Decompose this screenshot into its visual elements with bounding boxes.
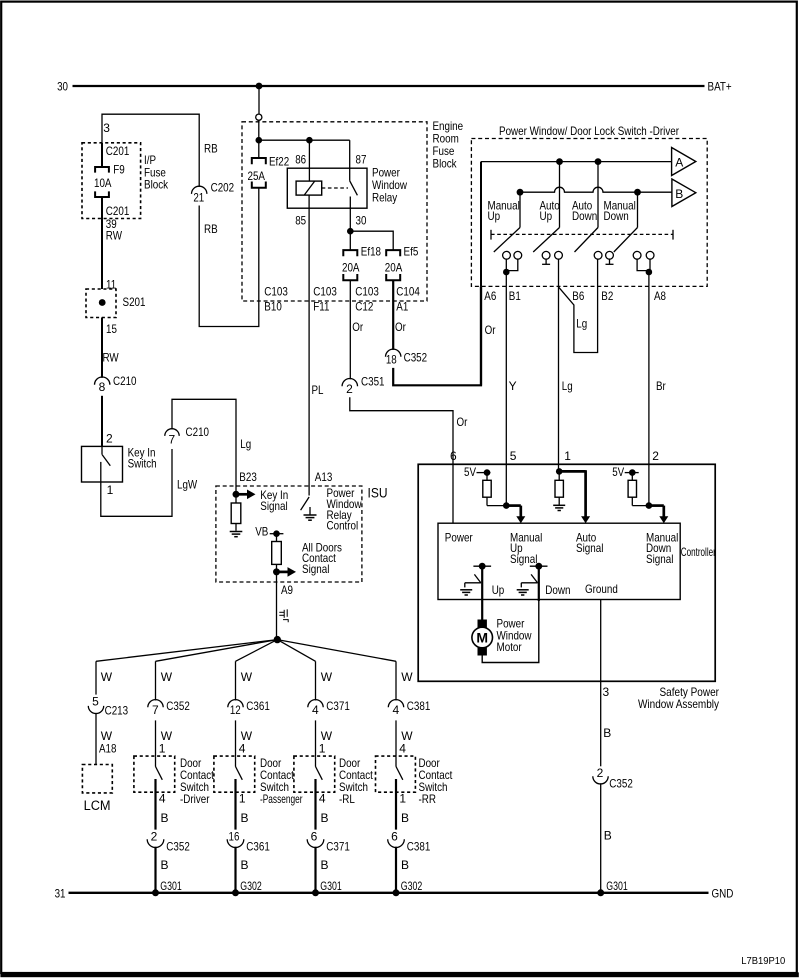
door contact switch -RR	[376, 756, 416, 792]
junction node coil feed	[306, 137, 313, 144]
svg-text:G301: G301	[606, 879, 628, 893]
svg-text:B10: B10	[264, 300, 282, 314]
fan wire branch 3	[236, 640, 278, 662]
connector C351 pin 2	[342, 374, 385, 396]
svg-text:C361: C361	[246, 699, 270, 713]
wire B6 out	[558, 259, 560, 286]
svg-text:C352: C352	[404, 350, 428, 364]
svg-text:-RR: -RR	[419, 792, 437, 806]
svg-text:B: B	[603, 726, 611, 740]
wire coil out 85 PL to ISU	[308, 195, 310, 495]
svg-text:G302: G302	[240, 879, 262, 893]
label auto signal	[576, 530, 603, 555]
svg-text:C201: C201	[106, 144, 130, 158]
contact pair auto down	[594, 251, 613, 259]
ground G302 branch5	[393, 879, 423, 896]
door contact switch -Passenger	[214, 756, 255, 792]
svg-text:Or: Or	[395, 320, 406, 334]
fuse Ef5 20A	[385, 245, 419, 281]
connector C381 pin 6	[388, 830, 431, 854]
engine room fuse block box	[242, 122, 427, 301]
svg-text:Power Window/ Door Lock Switch: Power Window/ Door Lock Switch -Driver	[499, 124, 679, 138]
connector C210 pin 7	[165, 425, 209, 446]
svg-text:W: W	[101, 670, 113, 684]
svg-text:S201: S201	[123, 295, 146, 309]
key in switch K	[82, 445, 157, 482]
svg-text:G302: G302	[401, 879, 423, 893]
stub auto up NC	[542, 259, 550, 264]
junction pin2	[646, 502, 653, 509]
fuse Ef22 25A	[248, 154, 290, 187]
wire branch3 B lower	[236, 847, 249, 893]
svg-text:4: 4	[159, 792, 166, 806]
svg-text:C381: C381	[407, 839, 431, 853]
connector C352 pin 18	[386, 349, 428, 367]
svg-text:85: 85	[295, 213, 306, 227]
wire A8 out	[648, 272, 650, 286]
svg-text:C352: C352	[609, 777, 633, 791]
svg-text:PL: PL	[312, 383, 324, 397]
svg-text:Or: Or	[485, 323, 496, 337]
fan wire branch 4	[277, 640, 315, 662]
label all doors contact signal	[302, 540, 342, 576]
svg-text:VB: VB	[255, 525, 268, 539]
svg-text:B23: B23	[239, 470, 257, 484]
svg-text:ISU: ISU	[368, 486, 388, 501]
label door contact switch -RL	[339, 756, 373, 806]
controller box	[438, 523, 680, 599]
label Manual Down	[604, 199, 636, 223]
wire connector to junction	[258, 120, 260, 140]
svg-text:4: 4	[312, 703, 319, 717]
ISU box	[216, 486, 362, 582]
svg-text:Lg: Lg	[576, 317, 587, 331]
label Auto Up	[540, 199, 560, 223]
svg-text:Switch: Switch	[128, 457, 157, 471]
label key in signal	[260, 488, 288, 513]
svg-text:8: 8	[99, 380, 106, 394]
svg-text:4: 4	[319, 792, 326, 806]
I/P fuse block name	[144, 153, 169, 191]
svg-text:Up: Up	[492, 583, 505, 597]
svg-text:B6: B6	[572, 289, 584, 303]
wire relay feed horizontal	[259, 139, 350, 141]
up switch	[460, 563, 491, 595]
svg-text:Down: Down	[572, 209, 597, 223]
svg-text:Br: Br	[656, 379, 666, 393]
contact pair auto up	[542, 251, 562, 259]
ground G301 branch4	[312, 879, 342, 896]
svg-text:B: B	[401, 811, 409, 825]
power window relay name	[372, 166, 407, 205]
switch blade manual up	[494, 192, 520, 252]
wire pair1 tie to B1	[506, 259, 518, 272]
5V pullup manual up	[464, 465, 506, 506]
wire bus to fuse block connector	[258, 86, 260, 114]
connector C361 pin 16	[227, 830, 270, 854]
svg-text:C104: C104	[396, 285, 420, 299]
svg-text:Block: Block	[433, 157, 458, 171]
svg-text:C371: C371	[326, 839, 350, 853]
junction pin5	[503, 502, 510, 509]
svg-text:Signal: Signal	[646, 552, 673, 566]
junction A line 1	[556, 158, 563, 165]
wire pair4 tie to A8	[637, 259, 650, 272]
engine room fuse block name	[433, 119, 464, 171]
junction node at relay feed	[255, 137, 262, 144]
connector C104 A1 labels	[396, 285, 420, 314]
door contact switch -RL	[294, 756, 335, 792]
svg-text:M: M	[476, 630, 488, 646]
svg-text:LgW: LgW	[177, 478, 198, 492]
svg-text:A18: A18	[99, 742, 117, 756]
svg-text:2: 2	[597, 766, 604, 780]
wire A9 out	[276, 572, 278, 640]
wire C201 to fuse F9	[101, 143, 103, 167]
wire branch5 B lower	[396, 847, 409, 893]
wire B1 to safety pin5	[505, 286, 507, 504]
svg-text:86: 86	[295, 152, 306, 166]
connector C213 pin 5	[88, 694, 128, 717]
junction node B23	[233, 491, 240, 498]
wire A8 to safety pin2	[648, 286, 650, 504]
wire branch5 B upper	[396, 779, 409, 830]
I/P fuse block box	[82, 143, 141, 219]
wire B6 to safety pin1	[558, 286, 560, 473]
svg-text:15: 15	[106, 322, 117, 336]
wire Ef18 out	[349, 280, 351, 379]
svg-text:B: B	[161, 811, 169, 825]
svg-text:C371: C371	[326, 699, 350, 713]
connector C371 pin 6	[307, 830, 350, 854]
svg-text:G301: G301	[160, 879, 182, 893]
svg-text:20A: 20A	[342, 260, 360, 274]
label door contact switch -Passenger	[260, 756, 303, 806]
svg-text:G301: G301	[320, 879, 342, 893]
arrow auto signal	[559, 470, 590, 523]
svg-text:25A: 25A	[248, 169, 266, 183]
svg-text:C352: C352	[166, 699, 190, 713]
svg-text:11: 11	[106, 277, 116, 291]
wire branch2 W upper	[156, 661, 173, 700]
splice S201	[86, 289, 146, 318]
wire branch1 W upper	[96, 661, 113, 694]
svg-text:C210: C210	[113, 374, 137, 388]
svg-text:C103: C103	[355, 285, 379, 299]
contact pair manual up	[503, 251, 522, 259]
svg-text:C103: C103	[264, 285, 288, 299]
svg-text:F11: F11	[313, 300, 329, 314]
label manual up signal	[510, 530, 542, 566]
svg-text:12: 12	[230, 703, 241, 717]
svg-text:1: 1	[107, 483, 114, 497]
connector circle into engine room fuse block	[256, 114, 262, 120]
stub auto down NC	[606, 259, 614, 264]
arrow all doors contact signal	[277, 571, 289, 574]
svg-text:Signal: Signal	[260, 499, 287, 513]
resistor all doors	[272, 534, 282, 572]
wire branch4 W upper	[316, 661, 333, 700]
wire branch2 B lower	[156, 847, 169, 893]
door contact switch -Driver	[134, 756, 175, 792]
wire C352-2 to G301	[600, 783, 602, 893]
wire branch3 W upper	[236, 661, 253, 700]
connector C103 B10 labels	[264, 285, 288, 314]
svg-text:10A: 10A	[94, 176, 112, 190]
svg-text:6: 6	[450, 449, 457, 463]
label power window relay control	[327, 486, 362, 532]
5V pullup auto	[553, 468, 565, 510]
label manual down signal	[646, 530, 678, 566]
wire branch5 W upper	[396, 661, 413, 700]
svg-text:2: 2	[151, 830, 158, 844]
svg-text:Window Assembly: Window Assembly	[638, 697, 719, 711]
wire S201 down pin 15	[101, 318, 103, 378]
junction node B1	[503, 269, 510, 276]
fan wire branch 1	[96, 640, 277, 662]
wire to C352-2	[600, 681, 602, 766]
svg-text:C381: C381	[407, 699, 431, 713]
wire coil feed 86	[308, 140, 310, 181]
5V pullup manual down	[612, 465, 649, 506]
fan junction node	[274, 636, 281, 643]
connector C352 pin 7	[148, 699, 190, 717]
wire C351 to safety pin 6	[350, 397, 453, 464]
svg-text:20A: 20A	[385, 260, 403, 274]
wire branch3 B upper	[236, 779, 249, 830]
wire line A	[481, 161, 672, 163]
fuse Ef18 20A	[342, 245, 381, 281]
svg-text:C12: C12	[355, 300, 373, 314]
switch blade auto up	[533, 162, 559, 252]
svg-text:A: A	[675, 155, 683, 169]
label safety power window assembly	[638, 685, 719, 711]
relay coil-contact link	[322, 187, 348, 189]
wire branch4 B upper	[316, 779, 329, 830]
wire branch5 W lower	[396, 720, 413, 756]
wire A6 riser	[480, 162, 482, 287]
junction A line 2	[595, 158, 602, 165]
wire branch1 W lower A18	[96, 713, 117, 765]
svg-text:B: B	[321, 858, 329, 872]
wire branch2 B upper	[156, 779, 169, 830]
svg-text:A9: A9	[281, 583, 293, 597]
wire down to motor loop	[538, 566, 540, 601]
svg-text:B: B	[241, 858, 249, 872]
svg-text:W: W	[401, 670, 413, 684]
svg-text:3: 3	[103, 121, 110, 135]
junction on bus 30	[256, 83, 263, 90]
svg-text:Motor: Motor	[497, 640, 522, 654]
wire branch4 W lower	[316, 720, 333, 756]
svg-text:W: W	[241, 670, 253, 684]
svg-text:A1: A1	[396, 300, 408, 314]
label power window motor	[497, 617, 532, 655]
svg-text:B: B	[161, 858, 169, 872]
svg-text:6: 6	[391, 830, 398, 844]
svg-text:A13: A13	[315, 470, 333, 484]
svg-text:7: 7	[152, 703, 159, 717]
connector C103 F11 labels	[313, 285, 337, 314]
relay coil	[296, 181, 322, 195]
svg-text:B2: B2	[601, 289, 613, 303]
wire to Ef18	[349, 231, 351, 250]
connector C381 pin 4	[388, 699, 430, 717]
svg-text:C352: C352	[166, 839, 190, 853]
svg-text:RB: RB	[204, 142, 218, 156]
svg-text:B: B	[321, 811, 329, 825]
wire C210 to key in switch	[101, 396, 103, 447]
op-amp-like triangle A	[672, 148, 696, 176]
svg-text:W: W	[161, 670, 173, 684]
svg-text:3: 3	[603, 685, 610, 699]
svg-text:18: 18	[386, 353, 397, 367]
svg-text:Signal: Signal	[576, 541, 603, 555]
svg-text:Control: Control	[327, 519, 359, 533]
svg-text:31: 31	[55, 886, 66, 900]
junction B line 2	[634, 189, 641, 196]
svg-text:F9: F9	[113, 163, 125, 177]
svg-text:RW: RW	[103, 350, 120, 364]
svg-text:30: 30	[57, 80, 68, 94]
connector C352 pin 2	[147, 830, 190, 854]
svg-text:B: B	[675, 187, 683, 201]
switch blade manual down	[614, 192, 638, 252]
svg-text:5: 5	[510, 449, 517, 463]
svg-text:1: 1	[399, 792, 406, 806]
connector C361 pin 12	[228, 699, 270, 717]
wire ground pin	[600, 600, 602, 682]
wire Ef22 to C103 B10 and corner	[199, 188, 259, 327]
label Manual Up	[488, 199, 520, 223]
svg-text:B: B	[401, 858, 409, 872]
svg-text:C361: C361	[246, 839, 270, 853]
VB node	[270, 530, 284, 537]
connector C210 pin 8	[95, 374, 137, 394]
svg-text:Power: Power	[445, 530, 473, 544]
wire branch3 W lower	[236, 720, 253, 756]
resistor key in	[230, 494, 243, 536]
svg-text:W: W	[321, 670, 333, 684]
junction node 30	[347, 228, 354, 235]
svg-text:C213: C213	[105, 704, 129, 718]
wire C202 up to top corner	[102, 114, 199, 187]
relay switch contact	[350, 140, 358, 231]
wire fuse F9 down pin 39	[101, 197, 103, 289]
fan wire branch 2	[156, 640, 278, 662]
svg-text:BAT+: BAT+	[708, 80, 732, 94]
ground G301 safety	[597, 879, 628, 896]
svg-text:5V: 5V	[612, 465, 624, 479]
down switch	[517, 563, 548, 595]
svg-text:21: 21	[193, 191, 204, 205]
svg-text:RB: RB	[204, 222, 218, 236]
wire to Ef5	[350, 231, 393, 250]
svg-text:L7B19P10: L7B19P10	[741, 956, 785, 967]
svg-text:C202: C202	[211, 181, 235, 195]
wire pin6 power	[452, 464, 454, 523]
wire up to motor	[481, 566, 483, 620]
svg-text:Controller: Controller	[681, 545, 716, 559]
arrow key in signal	[236, 493, 248, 496]
svg-text:16: 16	[229, 830, 240, 844]
connector C103 C12 labels	[355, 285, 379, 314]
svg-text:4: 4	[392, 703, 399, 717]
svg-text:Or: Or	[457, 415, 468, 429]
svg-text:LCM: LCM	[84, 798, 111, 813]
ISU relay control driver	[301, 497, 317, 520]
svg-text:4: 4	[399, 742, 406, 756]
svg-text:-RL: -RL	[339, 792, 355, 806]
svg-text:2: 2	[652, 449, 659, 463]
wire line B with hops	[518, 187, 672, 192]
junction node A9	[273, 568, 280, 575]
switch driver box	[471, 139, 707, 287]
svg-text:1: 1	[159, 742, 166, 756]
wire B1 out	[505, 272, 507, 286]
svg-text:Down: Down	[545, 583, 570, 597]
svg-text:Lg: Lg	[562, 379, 573, 393]
svg-text:1: 1	[239, 792, 246, 806]
power window motor M1	[472, 620, 493, 656]
svg-text:Signal: Signal	[510, 552, 537, 566]
junction B line 1	[517, 189, 524, 196]
label door contact switch -RR	[419, 756, 453, 806]
bus 30 BAT+	[73, 85, 705, 87]
junction node A8	[646, 269, 653, 276]
svg-text:Lg: Lg	[240, 437, 251, 451]
op-amp-like triangle B	[672, 179, 696, 207]
arrow manual down signal	[649, 506, 668, 524]
connector C352 pin 2 ground chain	[593, 766, 633, 790]
splice mark	[279, 609, 288, 622]
wire C210-7 to ISU B23	[172, 399, 236, 494]
svg-text:Ground: Ground	[585, 582, 618, 596]
svg-text:A8: A8	[654, 289, 666, 303]
svg-text:2: 2	[106, 431, 113, 445]
svg-text:7: 7	[168, 432, 175, 446]
ground G302 branch3	[232, 879, 262, 896]
svg-text:Y: Y	[509, 379, 517, 393]
svg-text:1: 1	[319, 742, 326, 756]
svg-text:5: 5	[92, 694, 99, 708]
bus 31 GND	[69, 892, 709, 894]
wire key switch to C210-7	[101, 449, 172, 516]
power window relay box	[287, 168, 367, 208]
svg-text:Ef22: Ef22	[269, 154, 289, 168]
label Auto Down	[572, 199, 597, 223]
switch blade auto down	[575, 162, 599, 252]
svg-text:C103: C103	[313, 285, 337, 299]
svg-text:Up: Up	[488, 209, 501, 223]
svg-text:Ef5: Ef5	[404, 245, 419, 259]
svg-text:Ef18: Ef18	[361, 245, 381, 259]
svg-text:87: 87	[356, 152, 367, 166]
connector C371 pin 4	[308, 699, 350, 717]
label door contact switch -Driver	[180, 756, 214, 806]
wire branch2 W lower	[156, 720, 173, 756]
svg-text:2: 2	[346, 382, 353, 396]
svg-text:-Passenger: -Passenger	[260, 792, 303, 806]
arrow manual up signal	[506, 506, 525, 524]
wire branch4 B lower	[316, 847, 329, 893]
svg-text:1: 1	[564, 449, 571, 463]
svg-text:Up: Up	[540, 209, 553, 223]
svg-text:A6: A6	[484, 289, 496, 303]
svg-text:4: 4	[239, 742, 246, 756]
safety power window assembly box	[418, 464, 715, 681]
svg-text:6: 6	[311, 830, 318, 844]
